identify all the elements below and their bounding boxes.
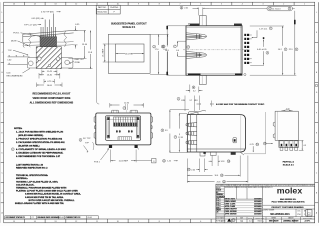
- partial A caption: [283, 161, 295, 167]
- side view left latch wedges: [186, 123, 197, 145]
- top view solder post below body: [199, 75, 206, 84]
- front view contact comb strip: [114, 117, 138, 126]
- svg-text:20.8: 20.8: [217, 182, 221, 184]
- title block bottom row cells: [216, 217, 312, 223]
- PCB layout caption three lines: [30, 92, 74, 104]
- svg-text:POS 1: POS 1: [94, 162, 101, 164]
- svg-text:6: 6: [200, 4, 201, 6]
- PCB layout large bold-hatched footprint region: [29, 47, 70, 69]
- top view main body outline: [186, 26, 242, 75]
- svg-text:12: 12: [188, 169, 190, 171]
- svg-text:3.18: 3.18: [221, 161, 225, 163]
- PCB layout dim TYP 1.27 (4X): [24, 24, 41, 26]
- side view slanted contact blade: [190, 110, 207, 114]
- svg-text:15: 15: [13, 221, 15, 223]
- svg-text:1.27 ±0.1: 1.27 ±0.1: [259, 28, 268, 30]
- svg-text:4: 4: [242, 4, 243, 6]
- front view outer body: [96, 113, 151, 145]
- top view center line dash-dot: [183, 49, 250, 51]
- svg-text:8: 8: [159, 4, 160, 6]
- svg-text:6. RECOMMENDED PCB THICKNESS:: 6. RECOMMENDED PCB THICKNESS: 1.57: [16, 156, 61, 158]
- table: PART NO / PLATING: [96, 5, 120, 14]
- partial A terminal comb section: [279, 140, 299, 147]
- svg-text:85540: 85540: [258, 221, 262, 223]
- front view small cross contacts: [116, 130, 133, 133]
- svg-text:13.40: 13.40: [47, 75, 53, 77]
- svg-text:12: 12: [75, 221, 77, 223]
- svg-text:4: 4: [80, 140, 81, 142]
- svg-text:9: 9: [12, 149, 13, 151]
- dim circled A 3.2 below post: [186, 85, 203, 93]
- top view dim 0.40 +-0.05 with circled 8: [250, 37, 269, 65]
- svg-text:14: 14: [221, 175, 223, 177]
- svg-text:DRWN: MURPHY: DRWN: MURPHY: [225, 209, 237, 211]
- svg-text:SHIELD: BRASS PLATED WITH 0.00: SHIELD: BRASS PLATED WITH 0.0025 MIN TIN…: [15, 202, 64, 205]
- svg-text:6.8 REF MAX FOR THE MINIMUM C: 6.8 REF MAX FOR THE MINIMUM CONTACT POIN…: [216, 103, 265, 106]
- PCB layout bottom dim 11.43: [42, 70, 57, 76]
- top view vertical dim 22.9 line from stadium label: [250, 11, 298, 75]
- svg-text:0.00100 MIN PURE TIN IN TAIL A: 0.00100 MIN PURE TIN IN TAIL AREA.: [25, 196, 64, 199]
- svg-text:SHEET NUMBER: SHEET NUMBER: [303, 218, 313, 220]
- svg-text:DRWN: GOMEZ: DRWN: GOMEZ: [225, 201, 236, 203]
- svg-text:PRODUCT CUSTOMER DRAWING: PRODUCT CUSTOMER DRAWING: [271, 206, 304, 209]
- svg-text:8: 8: [159, 221, 160, 223]
- svg-text:4.3: 4.3: [303, 145, 306, 147]
- svg-text:SERIES: SERIES: [271, 218, 276, 220]
- svg-text:8: 8: [162, 130, 163, 132]
- svg-text:11.43 REF: 11.43 REF: [119, 161, 129, 163]
- svg-text:PART NO.: PART NO.: [98, 6, 107, 9]
- svg-text:15: 15: [13, 4, 15, 6]
- front view bottom center tab with serrations: [112, 137, 138, 141]
- svg-text:12.95: 12.95: [178, 137, 183, 139]
- svg-text:85540-7001: 85540-7001: [97, 12, 107, 14]
- svg-text:VIEW FROM COMPONENT SIDE: VIEW FROM COMPONENT SIDE: [32, 97, 70, 100]
- svg-text:(MOLEX 68040 SERIES).: (MOLEX 68040 SERIES).: [18, 134, 44, 137]
- svg-text:10: 10: [117, 221, 119, 223]
- svg-text:9.9: 9.9: [165, 130, 168, 132]
- svg-text:8: 8: [267, 53, 268, 55]
- svg-text:SCALE 2:1: SCALE 2:1: [122, 26, 135, 29]
- PCB layout wavy horizontal break lines: [24, 41, 73, 42]
- side view bottom feet: [200, 152, 244, 156]
- svg-text:CURRENT REV C2: CURRENT REV C2: [66, 217, 81, 219]
- svg-text:3.7: 3.7: [189, 100, 192, 102]
- svg-text:5. EXCEEDS CATEGORY 5E PERFORM: 5. EXCEEDS CATEGORY 5E PERFORMANCE.: [16, 151, 64, 154]
- svg-text:6040 SERIES N/L: 6040 SERIES N/L: [280, 198, 297, 201]
- svg-text:FULLY SHIELDED MOD JACK(N KIT): FULLY SHIELDED MOD JACK(N KIT): [272, 201, 305, 204]
- svg-text:0.40 ±0.05: 0.40 ±0.05: [257, 49, 267, 51]
- svg-text:13: 13: [55, 221, 57, 223]
- side view bottom dim 1.45 with circled 12: [163, 159, 178, 162]
- svg-text:SUGGESTED PANEL CUTOUT: SUGGESTED PANEL CUTOUT: [111, 22, 147, 25]
- svg-text:16.5 REF: 16.5 REF: [125, 54, 134, 56]
- partial A left circled 11 leader: [263, 142, 273, 145]
- title block product customer drawing cell: [263, 205, 315, 209]
- svg-text:RECOMMENDED: RECOMMENDED: [7, 75, 24, 77]
- PCB layout bottom dim 13.40: [39, 73, 60, 79]
- svg-text:11: 11: [96, 221, 98, 223]
- svg-text:0.65 (8X): 0.65 (8X): [32, 18, 41, 20]
- svg-text:DOCUMENT STATUS P1: DOCUMENT STATUS P1: [6, 216, 25, 219]
- side view bottom dim 20.8 with circled 15: [187, 156, 248, 184]
- svg-text:12: 12: [75, 4, 77, 6]
- front view dim 11.94 above: [110, 102, 144, 109]
- svg-text:PLATING: PLATING: [110, 6, 118, 9]
- svg-text:P50: P50: [297, 214, 300, 216]
- title block left labels EC NO DRWN CHKD APPR: [0, 0, 1, 1]
- svg-text:7: 7: [174, 46, 175, 48]
- svg-text:2: 2: [188, 47, 189, 49]
- svg-text:4. COPLANARITY OF SIGNAL LEADS: 4. COPLANARITY OF SIGNAL LEADS: 0.10 MAX: [16, 148, 66, 151]
- svg-text:4=1: 4=1: [249, 221, 252, 223]
- top view left overall dim 16.8 with circled 6: [162, 26, 186, 75]
- svg-text:12: 12: [163, 161, 165, 163]
- svg-text:CHKD: GEORGE: CHKD: GEORGE: [225, 211, 237, 213]
- PCB layout dim 0.65 (8X): [32, 18, 44, 20]
- side view bottom dim 2.00 with circled 16: [187, 159, 207, 173]
- svg-text:MATERIAL:: MATERIAL:: [16, 177, 28, 180]
- svg-text:16.6: 16.6: [214, 175, 218, 177]
- svg-text:RELEASE DATE 2021/04/03: RELEASE DATE 2021/04/03: [38, 216, 60, 219]
- svg-text:5: 5: [289, 8, 290, 10]
- svg-text:ALL DIMENSIONS REF DIMENSIONS: ALL DIMENSIONS REF DIMENSIONS: [30, 102, 74, 105]
- top view latch post: [199, 16, 206, 26]
- side view main body rounded outline: [187, 115, 245, 152]
- side view left dim 9.9 and 12.95 with circled refs: [161, 110, 189, 153]
- top view dim A 2.41 at top: [180, 6, 295, 15]
- PCB layout coordinate dim lines lower left: [7, 55, 29, 64]
- svg-text:SCALE 4:1: SCALE 4:1: [283, 164, 295, 167]
- front view side ear bumps: [94, 117, 153, 139]
- side view interior lines: [187, 115, 245, 152]
- svg-text:11.43: 11.43: [47, 71, 53, 73]
- svg-text:F: F: [316, 112, 317, 114]
- top view bottom corner dark feet: [188, 74, 201, 76]
- svg-text:2. PRODUCT SPECIFICATION: PS-8: 2. PRODUCT SPECIFICATION: PS-85540-002: [16, 137, 63, 140]
- svg-text:16.00: 16.00: [47, 85, 53, 87]
- svg-text:2: 2: [124, 108, 125, 110]
- partial A dim 2.05 top: [282, 109, 293, 112]
- svg-text:DESIGN UNITS: DESIGN UNITS: [255, 218, 264, 220]
- svg-text:SIZE: SIZE: [240, 218, 243, 220]
- svg-text:L: L: [2, 12, 3, 14]
- svg-text:09:04: 09:04: [60, 217, 64, 219]
- side view bottom dim 16.6 with circled 14: [187, 156, 240, 178]
- svg-text:HOUSING: LCP GLASS FILLED UL 9: HOUSING: LCP GLASS FILLED UL 94V0,: [16, 180, 58, 183]
- top view corner shield tabs dark: [190, 24, 200, 26]
- svg-text:1. JACK FOR MATING WITH SHIELD: 1. JACK FOR MATING WITH SHIELDED PLUG: [16, 130, 64, 133]
- dim 6.8 REF MAX FOR THE MINIMUM CONTACT POINT: [197, 96, 265, 111]
- PCB layout label dia 0.89 with leader: [11, 40, 29, 46]
- svg-text:C2: C2: [307, 211, 311, 215]
- svg-text:ZONE: ZONE: [75, 62, 81, 64]
- svg-text:PARTIAL A: PARTIAL A: [283, 161, 295, 164]
- svg-text:9: 9: [270, 28, 271, 30]
- side view top-left tab: [189, 112, 198, 115]
- front view inner top shelf: [106, 119, 141, 121]
- svg-text:REMOVED INSPECTION NO: 2: REMOVED INSPECTION NO: 2: [16, 168, 48, 170]
- side view bottom dim 3.18 circled 13: [209, 156, 230, 167]
- PCB layout label POS 1 with leader: [13, 32, 41, 37]
- svg-text:LAST INSPECTION No: 26: LAST INSPECTION No: 26: [16, 163, 44, 166]
- front view dim 11.43 REF bottom: [111, 150, 157, 163]
- title block document number row: [261, 209, 312, 217]
- panel cutout dim 16.5 REF horizontal: [116, 53, 144, 55]
- svg-text:RECOMMENDED P.C.B LAYOUT: RECOMMENDED P.C.B LAYOUT: [32, 92, 70, 95]
- partial A right dim 4.3: [298, 140, 306, 150]
- PCB layout dim 0.76 TYP (8X): [41, 11, 61, 13]
- svg-text:1 OF 1: 1 OF 1: [305, 221, 310, 223]
- svg-text:5: 5: [285, 49, 286, 51]
- svg-text:SD-85540-001: SD-85540-001: [270, 212, 290, 216]
- front view POS 1 label: [94, 149, 109, 164]
- PCB layout keep-out zone label: [69, 59, 85, 64]
- svg-text:F: F: [2, 112, 3, 114]
- svg-text:5: 5: [221, 4, 222, 6]
- svg-text:TECHNICAL SPECIFICATIONS:: TECHNICAL SPECIFICATIONS:: [16, 174, 48, 177]
- svg-text:2.00: 2.00: [191, 169, 195, 171]
- PCB layout label 7.92 with leader: [8, 50, 29, 56]
- svg-text:PLATING: 1) POST PLATE 0.00000: PLATING: 1) POST PLATE 0.00000 MIN GOLD …: [16, 190, 78, 193]
- front view inner recess: [106, 116, 141, 141]
- view: suggested panel cutout scale 2:1: [111, 22, 147, 29]
- PCB layout label 6.04 RECOMMENDED: [7, 69, 31, 78]
- svg-text:3: 3: [263, 4, 264, 6]
- svg-text:12.7±0.13: 12.7±0.13: [272, 8, 280, 10]
- svg-text:(BLISTER ON REEL): (BLISTER ON REEL): [18, 145, 39, 147]
- svg-text:0.00000 MIN PALLADIUM NICKEL I: 0.00000 MIN PALLADIUM NICKEL IN CONTACT …: [25, 193, 81, 196]
- title block disclaimer text row: [216, 184, 315, 187]
- top view dim 1.27 +-0.1 with circled 9: [252, 27, 273, 38]
- PCB layout bottom dim 16.00: [37, 83, 63, 88]
- top view left contact wedge upper: [186, 33, 206, 40]
- svg-text:SEE CHART: SEE CHART: [269, 220, 280, 223]
- PCB layout bottom dim 4.79: [44, 79, 55, 84]
- svg-text:Ø0.89: Ø0.89: [11, 40, 17, 42]
- panel cutout outer rectangle: [108, 34, 150, 73]
- PCB layout vertical zigzag break left: [29, 33, 32, 47]
- svg-text:1: 1: [178, 99, 179, 101]
- svg-text:9: 9: [138, 221, 139, 223]
- svg-text:50° TYP: 50° TYP: [83, 138, 91, 140]
- svg-text:7: 7: [180, 4, 181, 6]
- front view bottom feet black: [108, 145, 139, 150]
- svg-text:6: 6: [296, 49, 297, 51]
- svg-text:C2: C2: [32, 217, 34, 219]
- top view stadium dim 12.7 +-0.13 with circled refs: [267, 6, 293, 11]
- circled 9 beside note 4: [11, 148, 14, 151]
- svg-text:11: 11: [264, 143, 266, 145]
- zone ticks and letters left and right edges: [1, 22, 319, 203]
- svg-text:POS 1: POS 1: [13, 32, 20, 34]
- svg-text:15: 15: [223, 181, 225, 183]
- svg-text:1 PL ±: 1 PL ±: [216, 205, 220, 207]
- svg-text:3.2: 3.2: [193, 90, 196, 92]
- svg-text:13: 13: [228, 161, 230, 163]
- side view right dim 0.25 circled 10: [250, 143, 259, 152]
- front view inner side bars: [107, 117, 139, 138]
- svg-text:L: L: [316, 12, 317, 14]
- svg-text:10: 10: [256, 144, 258, 146]
- svg-text:0.76 TYP (8X): 0.76 TYP (8X): [41, 12, 54, 14]
- front view top latch tabs: [112, 110, 138, 113]
- side view right detail pocket with terminal: [233, 115, 241, 152]
- svg-text:4: 4: [270, 8, 271, 10]
- svg-text:9: 9: [138, 4, 139, 6]
- svg-text:1: 1: [304, 4, 305, 6]
- svg-text:7: 7: [180, 221, 181, 223]
- svg-text:1.45: 1.45: [167, 161, 171, 163]
- PCB layout right dim 19.8 vertical: [68, 30, 92, 68]
- PCB layout vertical zigzag break right: [64, 31, 67, 47]
- svg-text:13: 13: [55, 4, 57, 6]
- top view circled datum on left edge: [187, 46, 190, 49]
- top view right terminal blocks column: [244, 34, 252, 64]
- drawing control table and title block outline: [216, 184, 315, 223]
- title block series description: [272, 198, 305, 204]
- control table dates column: [254, 198, 262, 216]
- svg-text:.25: .25: [216, 212, 218, 214]
- view separator vertical line: [97, 8, 100, 104]
- svg-text:COLOUR BLACK.: COLOUR BLACK.: [16, 183, 35, 186]
- svg-text:BOTH OVER 0.00127 MIN NICKEL O: BOTH OVER 0.00127 MIN NICKEL OVERALL: [29, 199, 76, 202]
- svg-text:NOTES:: NOTES:: [14, 128, 23, 130]
- svg-text:17.0: 17.0: [155, 49, 159, 51]
- svg-text:A4: A4: [240, 220, 242, 223]
- top view left dim 6.4 with circled 7: [174, 41, 187, 56]
- svg-text:7: 7: [175, 137, 176, 139]
- svg-text:2 PL ±: 2 PL ±: [216, 203, 220, 205]
- svg-text:molex: molex: [277, 187, 303, 196]
- panel cutout dim 13.1 REF vertical left: [103, 44, 116, 62]
- svg-text:09:04: 09:04: [88, 217, 92, 219]
- PCB layout dense hatched pin field: [40, 35, 57, 46]
- svg-text:TYP: TYP: [85, 143, 90, 145]
- partial A bottom pads: [280, 147, 297, 150]
- PCB layout body outline slanted top edges with break lines: [23, 30, 74, 34]
- svg-text:TERMINAL: PHOSPHOR BRONZE PLAT: TERMINAL: PHOSPHOR BRONZE PLATED WITH: [16, 187, 67, 190]
- svg-text:6: 6: [163, 46, 164, 48]
- svg-text:13.40: 13.40: [82, 44, 88, 46]
- zone ticks top and bottom edges: [24, 2, 294, 223]
- svg-text:6: 6: [200, 221, 201, 223]
- panel cutout inner rectangle: [116, 44, 144, 62]
- control table left column grid: [216, 186, 315, 223]
- svg-text:TYP 1.27 (4X): TYP 1.27 (4X): [24, 24, 37, 26]
- partial A body outline: [273, 111, 298, 140]
- svg-text:13.1 REF: 13.1 REF: [103, 48, 105, 57]
- svg-text:3. PACKAGING SPECIFICATION: PK: 3. PACKAGING SPECIFICATION: PK-85502-002: [16, 141, 65, 144]
- svg-text:3 PL ±: 3 PL ±: [216, 201, 220, 203]
- svg-text:SH: SH: [304, 210, 306, 212]
- zone marker circle on right edge: [315, 84, 318, 87]
- PCB layout right dim 6.35: [74, 24, 81, 48]
- panel cutout right dims 17.0 and 19.1 with circled notes: [150, 34, 169, 74]
- dim circled 1 and 3.7 above lower side view: [177, 96, 198, 112]
- PCB layout pin extension lines fan: [41, 14, 55, 36]
- leader line from side view detail to partial view: [244, 112, 266, 154]
- svg-text:14: 14: [34, 221, 36, 223]
- PCB layout keep-out outline around footprint: [27, 58, 73, 68]
- svg-text:1: 1: [304, 214, 305, 216]
- control table middle column sign-off rows: [224, 186, 273, 216]
- svg-text:2: 2: [283, 4, 284, 6]
- front view center extension lines to 11.94 dim: [125, 104, 127, 113]
- svg-text:J: J: [2, 52, 3, 54]
- technical specifications text block: [15, 163, 81, 205]
- top view vertical dim 10.2 with circled 5: [250, 26, 287, 75]
- PCB layout right dim 13.40 vertical: [68, 30, 88, 58]
- svg-text:DOC: DOC: [298, 210, 301, 212]
- footer document status strip: [5, 216, 99, 219]
- svg-text:14: 14: [34, 4, 36, 6]
- notes text block: [14, 128, 66, 158]
- top view left contact wedge lower: [186, 51, 206, 58]
- front view 50 deg TYP label with circled 4: [79, 138, 94, 152]
